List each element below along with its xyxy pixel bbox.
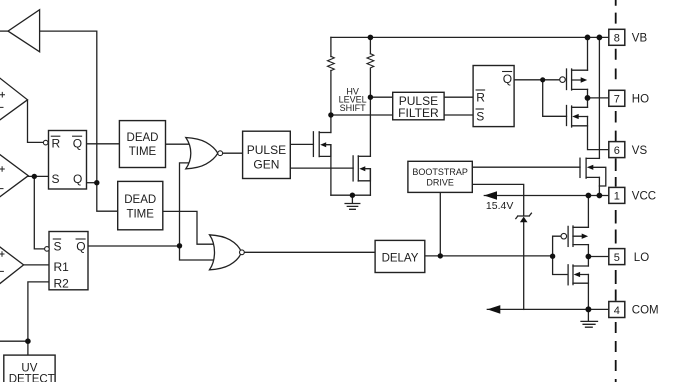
wire PULSE GEN output 1 to level-shift FET Q1 gate xyxy=(290,143,313,145)
node Rbar line junction xyxy=(368,95,373,100)
svg-text:PULSE: PULSE xyxy=(247,143,286,157)
transistor Q4 (high-side NFET) xyxy=(567,106,588,128)
svg-text:BOOTSTRAP: BOOTSTRAP xyxy=(412,167,468,177)
wire FET Q1 source down to level-shift ground rail xyxy=(330,145,332,196)
wire UV DETECT node to left edge xyxy=(0,340,28,342)
svg-text:R1: R1 xyxy=(54,260,70,274)
wire NFET Q4 source to VS rail xyxy=(588,117,609,150)
wire latch U3 Qbar output to node C xyxy=(88,245,180,247)
wire BOOTSTRAP DRIVE input from delay node xyxy=(439,192,441,256)
svg-text:VCC: VCC xyxy=(632,191,656,203)
node UV DETECT junction xyxy=(25,338,31,344)
wire low-side gate node to PFET Q6 and NFET Q7 gates xyxy=(553,236,567,274)
transistor Q7 (low-side NFET) xyxy=(568,265,588,285)
node VCC rail Q5 junction xyxy=(597,193,603,199)
wire NOR G2 output to DELAY input xyxy=(244,251,375,253)
DELAY block xyxy=(375,240,425,272)
wire PULSE FILTER Sbar output to latch U4 xyxy=(444,114,473,116)
inverter U1 xyxy=(8,10,40,52)
PULSE FILTER block xyxy=(393,92,444,120)
svg-text:4: 4 xyxy=(614,305,620,317)
wire bootstrap FET Q5 source down to VCC rail xyxy=(598,177,600,195)
wire high-side gate node down to NFET Q4 gate xyxy=(543,80,567,117)
svg-text:TIME: TIME xyxy=(129,146,157,158)
node VB rail Q3 junction xyxy=(585,35,591,41)
latch U3 (RS latch with R1 R2) xyxy=(45,232,88,291)
wire VB top rail xyxy=(331,36,609,38)
wire resistor R2 top lead xyxy=(369,37,371,53)
NOR gate G1 xyxy=(186,138,223,169)
UV DETECT block xyxy=(4,355,55,382)
wire latch U2 Qbar output to DEAD TIME 1 xyxy=(87,143,120,145)
node LO output junction xyxy=(586,254,592,260)
svg-text:R: R xyxy=(476,90,485,104)
svg-text:5: 5 xyxy=(614,252,620,264)
wire LO rail to pin 5 xyxy=(588,256,608,258)
svg-text:7: 7 xyxy=(614,94,620,106)
pin 4 COM xyxy=(609,302,659,318)
node low-side gate junction xyxy=(550,254,555,259)
DEAD TIME block 2 xyxy=(118,181,163,229)
svg-text:Q: Q xyxy=(76,239,85,253)
node HO output junction xyxy=(585,95,591,101)
svg-text:HO: HO xyxy=(632,94,649,106)
svg-text:VB: VB xyxy=(632,33,648,45)
svg-text:6: 6 xyxy=(614,145,620,157)
wire HO rail to pin 7 xyxy=(588,97,609,99)
node B comparator CMP2 output xyxy=(32,174,37,179)
wire DEAD TIME 2 output to NOR gate G2 top input xyxy=(163,211,215,244)
svg-text:8: 8 xyxy=(614,33,620,45)
node VB rail Q5 junction xyxy=(597,35,603,41)
wire PFET Q3 drain to HO node to NFET Q4 drain xyxy=(587,89,589,107)
wire Rbar line to PULSE FILTER xyxy=(370,96,392,98)
BOOTSTRAP DRIVE block xyxy=(408,161,472,192)
svg-text:DELAY: DELAY xyxy=(382,253,419,265)
comparator CMP2 xyxy=(0,155,28,197)
wire inverter input feedback from node A down to DEAD TIME 2 xyxy=(40,31,120,211)
wire NFET Q7 source down to COM node xyxy=(587,275,589,310)
node COM junction xyxy=(585,306,591,312)
wire DELAY output to low-side gate node xyxy=(425,255,553,257)
IC boundary dashed line xyxy=(615,0,617,382)
transistor Q3 (high-side PFET) xyxy=(560,69,588,90)
resistor R1 xyxy=(328,56,335,70)
wire BOOTSTRAP DRIVE output to FET Q5 gate xyxy=(472,166,580,168)
wire PULSE GEN output 2 to level-shift FET Q2 gate xyxy=(290,167,353,169)
node delay output junction xyxy=(438,253,443,258)
wire Sbar line to PULSE FILTER xyxy=(331,114,393,116)
NOR gate G2 xyxy=(210,235,245,270)
svg-text:SHIFT: SHIFT xyxy=(340,103,367,113)
svg-text:S: S xyxy=(476,109,484,123)
resistor R2 xyxy=(367,54,374,68)
wire FET Q2 source down to level-shift ground rail xyxy=(369,169,371,196)
wire VCC rail xyxy=(484,195,609,197)
wire latch U2 Q output to node A xyxy=(87,182,97,184)
wire resistor R2 bottom lead to FET Q2 drain xyxy=(369,69,371,157)
svg-text:DEAD: DEAD xyxy=(124,194,156,206)
svg-text:S: S xyxy=(54,239,62,253)
wire latch U3 R2 input from UV DETECT node xyxy=(28,282,49,355)
svg-text:15.4V: 15.4V xyxy=(486,200,513,212)
pin 8 VB xyxy=(609,29,648,45)
transistor Q2 (level-shift NFET) xyxy=(353,156,370,181)
wire NOR G1 output to PULSE GEN xyxy=(223,152,243,154)
wire resistor R1 top lead xyxy=(330,37,332,56)
wire VB rail down to bootstrap FET Q5 drain xyxy=(598,37,600,158)
wire level-shift ground rail xyxy=(331,194,371,196)
wire VB rail to PFET Q3 source xyxy=(587,37,589,70)
pin 7 HO xyxy=(609,90,649,106)
wire node B down to latch U3 S input xyxy=(34,176,44,249)
svg-text:R2: R2 xyxy=(54,277,70,291)
wire BOOTSTRAP DRIVE lower output to zener node xyxy=(472,184,523,215)
wire COM rail xyxy=(487,308,609,310)
latch U2 (RS latch) xyxy=(43,131,86,190)
wire resistor R1 bottom lead to FET Q1 drain xyxy=(330,71,332,133)
ground (level shift) xyxy=(345,195,360,209)
node level-shift ground junction xyxy=(350,193,355,198)
pin 1 VCC xyxy=(609,187,656,203)
transistor Q5 (bootstrap FET) xyxy=(580,158,606,186)
svg-text:Q: Q xyxy=(73,172,82,186)
node A latch U2 Q feedback xyxy=(94,180,99,185)
node top rail R2 junction xyxy=(368,35,374,41)
svg-text:DRIVE: DRIVE xyxy=(426,177,454,187)
wire zener D1 anode down to COM rail xyxy=(523,222,525,309)
node VCC rail Q6 junction xyxy=(586,193,592,199)
wire comparator CMP3 output to latch U3 R1 input xyxy=(24,264,49,266)
node C latch U3 Qbar branch xyxy=(177,243,182,248)
wire comparator CMP1 output to latch U2 R input xyxy=(28,100,44,142)
arrow COM return xyxy=(487,305,500,314)
DEAD TIME block 1 xyxy=(119,121,165,168)
svg-text:DETECT: DETECT xyxy=(9,373,55,382)
pin 5 LO xyxy=(609,249,649,265)
wire comparator CMP2 output to latch U2 S input xyxy=(28,175,48,177)
svg-text:VS: VS xyxy=(632,145,648,157)
wire DEAD TIME 1 output to NOR gate G1 top input xyxy=(166,143,193,145)
comparator CMP1 xyxy=(0,78,28,120)
svg-text:GEN: GEN xyxy=(253,157,279,171)
svg-text:TIME: TIME xyxy=(126,209,154,221)
node high-side gate junction xyxy=(540,77,545,82)
ground COM xyxy=(581,309,598,327)
latch U4 (pulse filter RS latch) xyxy=(473,66,514,127)
svg-text:LO: LO xyxy=(634,252,649,264)
wire PFET Q6 drain to LO node to NFET Q7 drain xyxy=(587,245,589,266)
svg-text:Q: Q xyxy=(503,72,512,86)
wire PULSE FILTER Rbar output to latch U4 xyxy=(444,96,473,98)
zener D1 15.4V xyxy=(486,200,532,222)
svg-text:FILTER: FILTER xyxy=(398,106,439,120)
svg-text:DEAD: DEAD xyxy=(127,132,159,144)
svg-text:1: 1 xyxy=(614,191,620,203)
PULSE GEN block xyxy=(243,131,291,178)
svg-text:R: R xyxy=(52,137,61,151)
pin 6 VS xyxy=(609,142,648,158)
arrow VCC supply xyxy=(484,191,497,200)
HV LEVEL SHIFT label xyxy=(339,86,367,112)
node Sbar line junction xyxy=(328,112,333,117)
transistor Q6 (low-side PFET) xyxy=(561,226,588,246)
svg-text:Q: Q xyxy=(73,137,82,151)
comparator CMP3 xyxy=(0,247,24,284)
wire VCC rail to PFET Q6 source xyxy=(587,196,589,228)
wire inverter output to left edge xyxy=(0,30,9,32)
wire latch U4 Qbar output to high-side gate node xyxy=(514,79,559,81)
svg-text:S: S xyxy=(52,172,60,186)
transistor Q1 (level-shift NFET) xyxy=(313,132,331,157)
wire NOR G1 bottom input down through node C to NOR G2 bottom input xyxy=(180,163,216,260)
svg-text:COM: COM xyxy=(632,305,659,317)
